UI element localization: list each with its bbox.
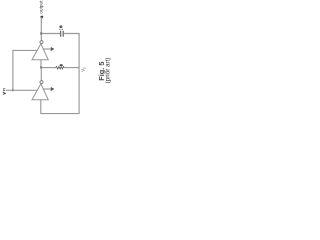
svg-text:V2: V2 <box>80 67 86 72</box>
capacitor C right plate <box>62 31 64 37</box>
svg-text:output: output <box>38 0 43 14</box>
resistor R zigzag <box>56 66 65 69</box>
op-amp U2 triangle <box>32 84 48 100</box>
wire junction down to op-amp U2 bubble <box>40 68 42 81</box>
wire left feedback rail <box>12 50 14 90</box>
junction dot resistor tap <box>40 66 42 68</box>
op-amp U1 inversion bubble <box>40 41 43 44</box>
capacitor label C <box>59 25 62 28</box>
resistor R right lead <box>64 67 79 69</box>
arrow U1 output line <box>43 48 51 50</box>
wire U1 base down to resistor junction <box>40 60 42 68</box>
wire right rail <box>78 33 80 113</box>
wire output node down to op-amp U1 bubble <box>40 17 42 40</box>
resistor R left lead <box>41 67 55 69</box>
wire U1 left input <box>13 49 37 51</box>
arrow U1 output head <box>51 47 55 51</box>
label Vin <box>3 92 5 94</box>
op-amp U1 triangle <box>32 44 48 60</box>
wire bottom stub up to op-amp U2 base <box>40 100 42 114</box>
arrow U2 output line <box>43 88 51 90</box>
capacitor C left plate <box>60 31 62 37</box>
wire bottom <box>41 113 80 115</box>
resistor label R <box>60 64 63 66</box>
wire Vin input line <box>6 89 38 91</box>
wire junction to capacitor left plate <box>41 33 60 35</box>
wire capacitor right plate to right rail <box>64 33 80 35</box>
op-amp U2 inversion bubble <box>40 81 43 84</box>
node junction capacitor tap <box>40 32 42 34</box>
arrow U2 output head <box>51 87 55 91</box>
junction dot Vin rail <box>12 89 14 91</box>
node output dot <box>40 16 43 19</box>
svg-text:(prior art): (prior art) <box>104 58 111 84</box>
